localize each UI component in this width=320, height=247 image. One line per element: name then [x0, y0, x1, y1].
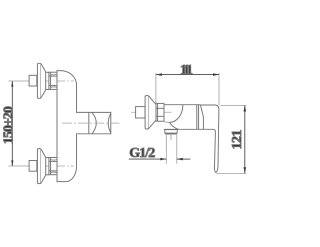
side view: hex nut: [156, 103, 164, 121]
side view: connector centerline: [131, 111, 172, 113]
svg-text:111: 111: [180, 63, 193, 78]
front view: top centerline: [8, 80, 30, 82]
front view: top inlet nipple: [29, 75, 37, 86]
dimension 111: arrowheads: [156, 73, 219, 76]
side view: handle top edge and outer blade edge: [201, 105, 219, 173]
front view: mixer body outline: [57, 71, 111, 182]
side view: inlet nipple: [136, 107, 146, 118]
side view: body bottom edge into blade inner edge: [164, 129, 216, 172]
side view: body top edge: [164, 104, 200, 106]
front view: spout flange line: [88, 112, 90, 133]
dimension 121: extension lines: [217, 106, 247, 174]
side view: body transition curve: [170, 105, 183, 123]
front view: bottom neck lines: [46, 157, 49, 159]
side view: lever neck slant: [200, 105, 203, 130]
side view: outlet pipe stub: [170, 134, 172, 140]
dimension G1/2: arrowheads: [160, 158, 183, 161]
front view: top escutcheon cone: [41, 64, 46, 98]
dimension 111: dimension line: [156, 74, 219, 76]
side view: escutcheon plate: [145, 96, 149, 129]
side view: escutcheon cone: [149, 96, 156, 128]
front view: spout end cap arc: [108, 113, 111, 133]
front view: bottom escutcheon cone: [41, 149, 46, 183]
svg-text:150±20: 150±20: [2, 106, 17, 144]
front view: spout centerline: [62, 122, 120, 124]
side view: outlet nut: [165, 130, 177, 134]
front view: top escutcheon plate: [37, 63, 41, 98]
side view: cartridge seam lines: [196, 105, 198, 130]
dimension 121: arrowheads: [244, 106, 247, 174]
front view: bottom inlet nipple: [29, 161, 37, 172]
front view: top hex nut: [49, 72, 57, 89]
dimension 150±20: dimension line: [11, 81, 13, 166]
svg-text:121: 121: [230, 130, 245, 150]
side view: inlet bore line: [164, 121, 169, 124]
dimension G1/2: extension lines: [166, 134, 177, 164]
front view: bottom escutcheon plate: [37, 149, 41, 184]
dimension G1/2: leader and dimension lines: [129, 158, 191, 160]
svg-text:G1/2: G1/2: [129, 146, 155, 161]
dimension 111: extension lines: [156, 73, 219, 105]
dimension 150±20: arrowheads: [11, 81, 13, 166]
front view: bottom hex nut: [49, 158, 57, 175]
side view: outlet fillet curve: [170, 122, 179, 129]
dimension 121: dimension line: [244, 106, 246, 174]
front view: spout body arc: [92, 112, 96, 133]
front view: top neck lines: [46, 71, 49, 73]
front view: bottom centerline: [8, 165, 30, 167]
